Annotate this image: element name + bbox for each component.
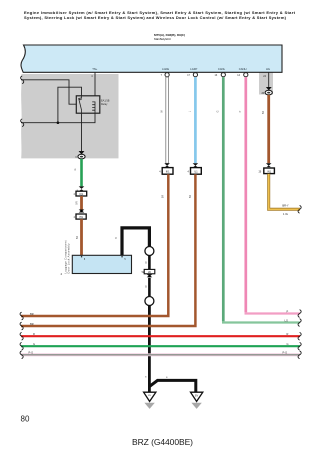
svg-text:IH1: IH1 bbox=[79, 216, 83, 219]
svg-text:BR-Y: BR-Y bbox=[282, 204, 288, 208]
svg-text:P-G: P-G bbox=[29, 351, 34, 355]
svg-text:BR: BR bbox=[30, 312, 34, 316]
svg-text:2: 2 bbox=[74, 217, 76, 219]
svg-text:B: B bbox=[145, 263, 147, 265]
svg-text:4: 4 bbox=[61, 272, 63, 276]
svg-text:G: G bbox=[287, 342, 289, 346]
svg-text:IN1: IN1 bbox=[267, 171, 272, 174]
svg-text:4: 4 bbox=[188, 171, 190, 173]
svg-text:B: B bbox=[115, 237, 118, 239]
svg-text:20: 20 bbox=[259, 171, 262, 173]
svg-text:L: L bbox=[189, 110, 192, 112]
svg-text:G: G bbox=[217, 110, 220, 112]
svg-text:TN+: TN+ bbox=[92, 67, 98, 71]
svg-text:P-G: P-G bbox=[283, 351, 288, 355]
svg-text:W: W bbox=[160, 110, 163, 113]
svg-text:13: 13 bbox=[215, 74, 218, 77]
svg-text:System), Steering Lock (w/ Sma: System), Steering Lock (w/ Smart Entry &… bbox=[24, 15, 287, 20]
svg-text:P: P bbox=[239, 110, 242, 112]
svg-text:B: B bbox=[166, 377, 168, 379]
svg-text:BRZ (G4400BE): BRZ (G4400BE) bbox=[132, 437, 193, 447]
svg-text:G: G bbox=[33, 342, 35, 346]
svg-text:LGFE: LGFE bbox=[162, 67, 169, 71]
svg-text:R: R bbox=[33, 332, 35, 336]
svg-text:BR: BR bbox=[189, 195, 192, 199]
svg-text:G: G bbox=[74, 168, 77, 170]
svg-text:BR: BR bbox=[30, 322, 34, 326]
svg-text:7: 7 bbox=[161, 74, 163, 77]
svg-text:BR: BR bbox=[262, 111, 265, 115]
svg-text:Door Lock Assembly: Door Lock Assembly bbox=[67, 243, 71, 274]
svg-text:4: 4 bbox=[74, 194, 76, 196]
svg-text:IQ1: IQ1 bbox=[79, 193, 84, 196]
svg-text:HG: HG bbox=[266, 67, 270, 71]
svg-text:IL1: IL1 bbox=[194, 171, 198, 174]
svg-text:CANH: CANH bbox=[239, 67, 247, 71]
svg-text:BR: BR bbox=[76, 236, 79, 240]
svg-text:LGFP: LGFP bbox=[190, 67, 197, 71]
svg-text:Main Body ECU: Main Body ECU bbox=[154, 37, 171, 41]
svg-text:B: B bbox=[145, 377, 147, 379]
svg-text:P: P bbox=[287, 309, 289, 313]
svg-text:BR: BR bbox=[76, 201, 79, 205]
svg-text:14: 14 bbox=[237, 74, 240, 77]
svg-text:R: R bbox=[287, 332, 289, 336]
svg-text:IK1: IK1 bbox=[166, 171, 170, 174]
svg-text:LG: LG bbox=[285, 318, 288, 322]
svg-text:1 IG: 1 IG bbox=[283, 212, 288, 216]
svg-text:17: 17 bbox=[187, 74, 190, 77]
svg-text:CANL: CANL bbox=[218, 67, 226, 71]
svg-text:BV: BV bbox=[195, 395, 199, 397]
svg-text:4: 4 bbox=[159, 171, 161, 173]
svg-text:Relay: Relay bbox=[101, 103, 108, 106]
svg-text:BR: BR bbox=[162, 195, 165, 199]
svg-text:80: 80 bbox=[21, 415, 31, 424]
svg-text:B: B bbox=[145, 287, 147, 289]
svg-text:2D: 2D bbox=[148, 271, 151, 274]
